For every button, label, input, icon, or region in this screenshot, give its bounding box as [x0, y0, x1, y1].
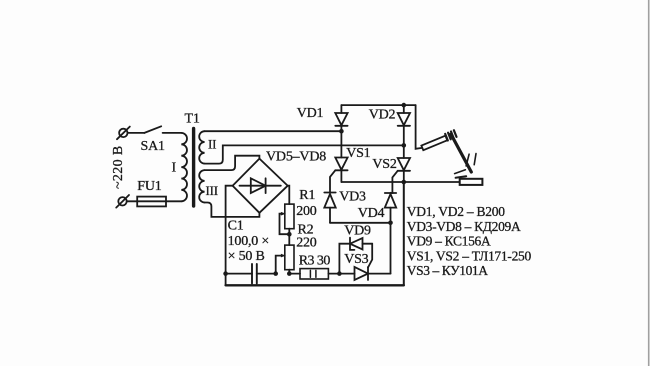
welding electrode	[451, 134, 471, 172]
R1 wiper arm	[280, 212, 290, 234]
cathode wire to workpiece	[341, 181, 459, 183]
wire terminal X1 to switch	[128, 132, 145, 134]
svg-text:VS2: VS2	[372, 157, 396, 172]
wire VD3-VD4 anode bus	[330, 222, 391, 224]
diode VD1	[335, 105, 347, 131]
wire top rail to electrode holder	[416, 105, 422, 149]
svg-text:VD2: VD2	[369, 108, 396, 123]
junction R2 bottom	[287, 271, 292, 276]
svg-text:VD1, VD2 – В200: VD1, VD2 – В200	[407, 204, 505, 219]
wire VS cathode node down to rail	[403, 182, 405, 285]
wire down to bottom rail	[225, 274, 227, 286]
electrode holder	[421, 136, 447, 151]
svg-text:VS3 – КУ101А: VS3 – КУ101А	[407, 263, 488, 278]
wire R3 to VS3 node	[328, 273, 339, 275]
svg-text:~220 В: ~220 В	[111, 146, 126, 189]
thyristor VS3	[339, 267, 390, 280]
svg-text:R1: R1	[299, 188, 315, 203]
wire VS3 cathode up to VD3/VD4 node	[390, 223, 392, 274]
svg-text:C1: C1	[228, 219, 244, 234]
svg-text:R3 30: R3 30	[299, 253, 331, 268]
svg-text:II: II	[208, 137, 216, 152]
diode VD2	[398, 105, 410, 145]
wire bridge right corner to R1	[288, 186, 290, 204]
terminal X2 (bottom input)	[116, 195, 129, 208]
svg-text:T1: T1	[185, 111, 200, 126]
svg-text:VD1: VD1	[297, 106, 324, 121]
junction node A (VD1/VS1)	[339, 129, 344, 134]
svg-text:VS3: VS3	[344, 252, 368, 267]
junction R2 wiper node	[273, 271, 278, 276]
junction VD9/R3/VS3 node	[337, 271, 342, 276]
svg-text:VD3: VD3	[339, 189, 366, 204]
wire VD9 left lead down	[339, 244, 350, 274]
svg-text:200: 200	[296, 204, 317, 219]
wire winding III top to bridge	[205, 156, 260, 170]
thyristor VS2	[391, 145, 411, 193]
svg-text:III: III	[206, 183, 218, 198]
junction bottom-left node	[223, 271, 228, 276]
holder grip ticks	[445, 130, 456, 140]
wire bridge left corner down to bottom node	[226, 186, 233, 274]
junction VD4 node	[388, 221, 393, 226]
wire winding III bottom to bridge	[205, 203, 260, 217]
capacitor C1	[226, 264, 276, 284]
svg-text:VS1, VS2 – ТЛ171-250: VS1, VS2 – ТЛ171-250	[407, 248, 532, 263]
svg-text:VD9: VD9	[344, 224, 371, 239]
wire VD9 right to VS3 gate	[368, 244, 372, 268]
top rail	[341, 104, 415, 106]
svg-text:VD9 – КС156А: VD9 – КС156А	[407, 234, 491, 249]
transformer T1 winding III	[199, 170, 204, 202]
wire winding II top to node A	[205, 130, 342, 132]
transformer T1 winding I	[181, 133, 187, 201]
diode VD3	[324, 193, 335, 223]
junction VD2 top rail	[402, 103, 407, 108]
scan edge artifact	[648, 0, 650, 366]
switch SA1	[144, 126, 181, 133]
wire to R3	[289, 273, 300, 275]
wire R1 to R2	[288, 229, 290, 245]
bridge inner diode	[240, 178, 281, 193]
svg-text:100,0 ×: 100,0 ×	[228, 234, 270, 249]
bottom rail	[226, 284, 404, 286]
svg-text:SA1: SA1	[141, 139, 165, 154]
svg-text:I: I	[172, 161, 177, 176]
svg-text:VD4: VD4	[358, 206, 385, 221]
junction cathode node	[402, 180, 407, 185]
zener diode VD9	[350, 238, 372, 250]
transformer core	[192, 129, 195, 207]
transformer T1 winding II	[199, 131, 204, 163]
R2 wiper arm	[276, 254, 286, 274]
resistor R1	[285, 204, 294, 229]
svg-text:FU1: FU1	[137, 179, 161, 194]
fuse FU1	[127, 197, 182, 207]
wire R2 bottom	[288, 270, 290, 274]
svg-text:VD5–VD8: VD5–VD8	[266, 150, 326, 165]
wire winding II bottom up and right to VS2 anode	[205, 145, 404, 163]
arc spark lines	[455, 154, 476, 178]
svg-text:VD3-VD8 – КД209А: VD3-VD8 – КД209А	[407, 219, 521, 234]
resistor R2	[285, 245, 294, 270]
junction node B (VD2/VS2)	[402, 143, 407, 148]
bridge rectifier VD5-VD8 diamond	[233, 159, 288, 213]
workpiece	[460, 179, 483, 185]
resistor R3	[300, 269, 328, 279]
svg-text:220: 220	[296, 236, 317, 251]
svg-text:× 50 В: × 50 В	[228, 249, 265, 264]
diode VD4	[385, 193, 396, 223]
thyristor VS1	[330, 131, 348, 192]
svg-text:VS1: VS1	[346, 146, 370, 161]
terminal X1 (top input)	[117, 127, 130, 140]
junction R1-R2	[287, 232, 292, 237]
